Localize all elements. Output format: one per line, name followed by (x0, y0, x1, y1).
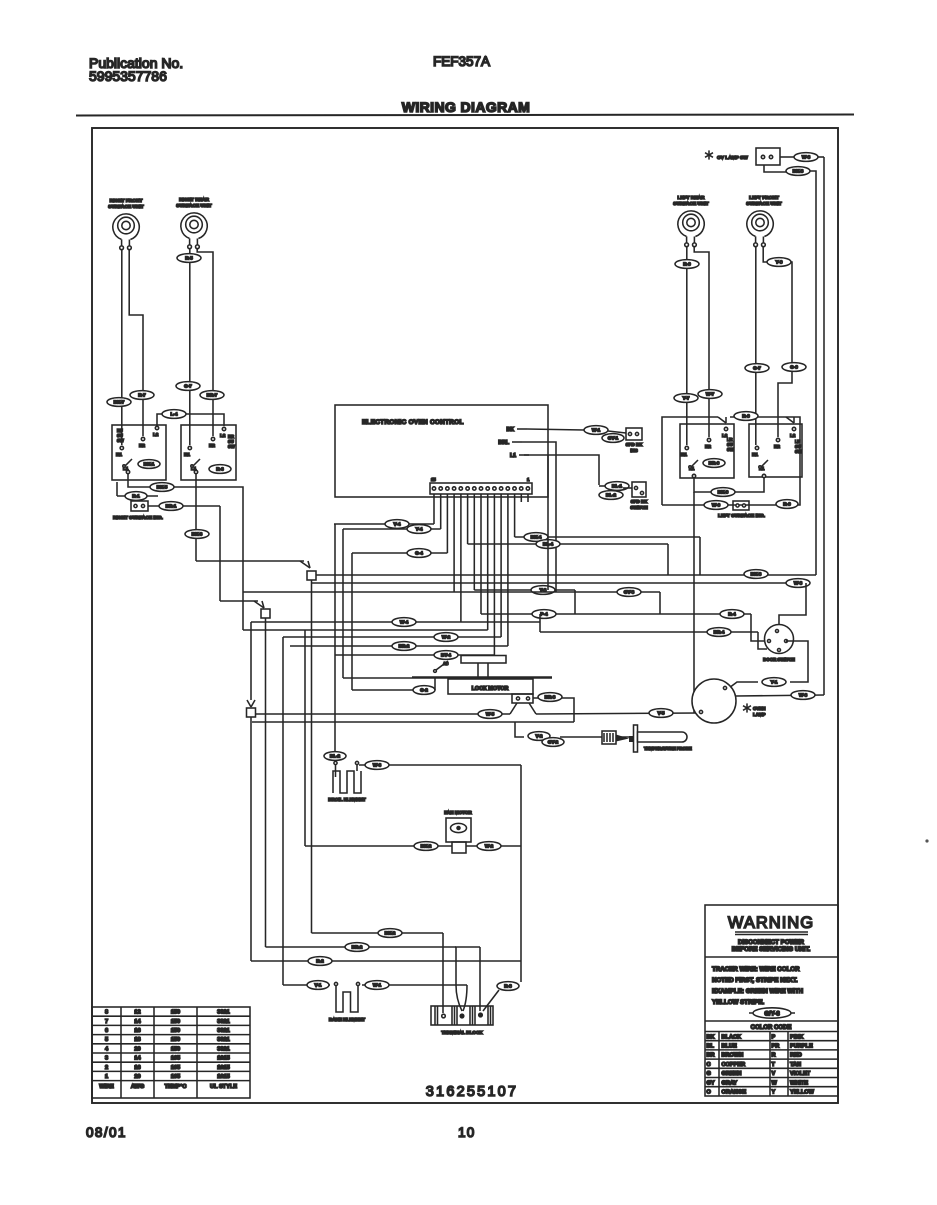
wire row y947 (266, 946, 481, 948)
svg-text:GY-1: GY-1 (608, 436, 619, 441)
svg-text:SW: SW (727, 447, 734, 452)
wire: EOC pin 12 drop (453, 494, 455, 592)
svg-text:G-7: G-7 (184, 384, 192, 389)
left front surface switch box LF SU SW (749, 424, 802, 478)
label BK-8 (786, 167, 810, 176)
svg-text:R-6: R-6 (683, 262, 691, 267)
svg-text:R-6: R-6 (783, 502, 791, 507)
svg-text:W-8: W-8 (794, 581, 803, 586)
wire: EOC pin 13 drop (446, 494, 448, 553)
svg-text:ELECTRONIC OVEN CONTROL: ELECTRONIC OVEN CONTROL (362, 419, 464, 426)
wires curving into terminal block center (456, 947, 462, 1011)
temperature probe body (634, 725, 638, 752)
svg-text:BL-2: BL-2 (330, 754, 341, 759)
label W-5 (478, 710, 502, 719)
wire: indicator to column (148, 505, 220, 507)
wire: LR unit right terminal down (694, 246, 709, 437)
label BL-2 (599, 491, 623, 500)
label W-8 row (786, 579, 810, 588)
label R-5 (177, 254, 201, 263)
wire: RF unit right terminal down (129, 249, 143, 436)
svg-text:BK-4: BK-4 (531, 535, 542, 540)
wire: right side vertical W (823, 157, 825, 695)
wire: EOC pin 14 drop (440, 494, 442, 529)
left rear surface unit coil (673, 195, 709, 247)
label BK-2 fan (414, 842, 438, 851)
wire (818, 156, 824, 158)
label V-4 (385, 520, 409, 529)
svg-text:V: V (772, 1071, 776, 1077)
wire (729, 682, 758, 688)
junction square 3 (247, 708, 256, 717)
svg-text:SW: SW (117, 438, 124, 443)
svg-text:R-8: R-8 (504, 984, 512, 989)
svg-text:TEMP°C: TEMP°C (165, 1084, 187, 1090)
svg-text:BL: BL (707, 1044, 715, 1050)
svg-text:SURFACE UNIT: SURFACE UNIT (108, 204, 144, 210)
label W-7 (698, 390, 722, 399)
svg-text:1015: 1015 (217, 1074, 229, 1080)
wire: down to terminal block left (442, 933, 444, 1013)
label G-4 (407, 549, 431, 558)
wire row y614 (481, 613, 751, 615)
wire row y537 (515, 536, 700, 538)
diagram border frame (92, 128, 838, 1103)
wire: junction3 down (250, 717, 252, 961)
svg-text:105: 105 (171, 1065, 180, 1071)
wire L1 to spd bk switch (524, 455, 599, 485)
wire: fan right (466, 845, 521, 847)
wire row y646 (290, 645, 508, 647)
wire row y714 left (256, 713, 511, 715)
wire (574, 590, 576, 614)
svg-text:SW: SW (228, 444, 235, 449)
label on BK wire (584, 426, 608, 435)
svg-text:105: 105 (171, 1056, 180, 1062)
svg-text:Y-6: Y-6 (776, 260, 783, 265)
svg-text:DOOR SWITCH: DOOR SWITCH (763, 657, 795, 662)
svg-text:5: 5 (105, 1037, 108, 1043)
label R-6 (675, 260, 699, 269)
svg-text:SURFACE UNIT: SURFACE UNIT (176, 203, 212, 209)
label W-8 lamp (791, 691, 815, 700)
left rear surface switch box LR SU SW (680, 424, 734, 478)
svg-text:BK-7: BK-7 (114, 400, 125, 405)
svg-text:12: 12 (134, 1010, 140, 1016)
svg-text:BK-3: BK-3 (192, 532, 203, 537)
wire: x352 down (351, 553, 353, 690)
wire: EOC pin 9 drop (473, 494, 475, 590)
wire: row622 down to junction 3 (250, 622, 252, 700)
svg-text:BK-2: BK-2 (385, 931, 396, 936)
terminal block (431, 1006, 493, 1035)
svg-text:BLUE: BLUE (722, 1044, 737, 1050)
wire row y933 (312, 932, 444, 934)
svg-text:WIRE: WIRE (99, 1084, 114, 1090)
wire BRL down (522, 442, 556, 592)
svg-text:NOTED FIRST, STRIPE NEXT.: NOTED FIRST, STRIPE NEXT. (712, 977, 798, 984)
wire: down to terminal block right (479, 947, 481, 1011)
svg-text:BRL: BRL (498, 440, 509, 446)
label W-3 (365, 761, 389, 770)
wire row y524 (334, 523, 434, 525)
svg-text:W-1: W-1 (592, 428, 601, 433)
spark switch box SPD BK SWITCH (630, 482, 648, 510)
svg-text:1015: 1015 (217, 1056, 229, 1062)
svg-text:BL-1: BL-1 (612, 484, 623, 489)
label W-6 (704, 501, 728, 510)
label in LR box (703, 459, 725, 468)
svg-text:16: 16 (134, 1065, 140, 1071)
wire row y583 (312, 582, 807, 584)
label (602, 434, 624, 443)
label R-6b (776, 500, 798, 509)
svg-text:RIGHT REAR: RIGHT REAR (179, 197, 209, 203)
wire: EOC pin 3 drop (514, 494, 516, 537)
svg-text:G: G (707, 1071, 711, 1077)
svg-text:BROIL ELEMENT: BROIL ELEMENT (328, 797, 366, 802)
svg-text:COPPER: COPPER (722, 1062, 746, 1068)
svg-text:3: 3 (105, 1056, 108, 1062)
label W-1 bake (365, 981, 389, 990)
svg-text:W-3: W-3 (373, 763, 382, 768)
wire BK out (527, 429, 584, 430)
svg-text:BR-2: BR-2 (399, 644, 410, 649)
door switch (763, 625, 795, 663)
svg-text:BR-2: BR-2 (352, 945, 363, 950)
label W-2 fan (477, 842, 501, 851)
svg-text:L2: L2 (153, 432, 159, 437)
svg-text:BK-8: BK-8 (793, 169, 804, 174)
wire: column from RR L1 to junction square 1 (196, 560, 304, 562)
wire row y544 (468, 543, 668, 545)
wire row y655 (335, 654, 494, 656)
svg-text:UL STYLE: UL STYLE (210, 1084, 237, 1090)
svg-text:BK-6: BK-6 (718, 490, 729, 495)
svg-text:3321: 3321 (217, 1019, 229, 1025)
wire (117, 495, 158, 497)
svg-text:RIGHT SURFACE INS.: RIGHT SURFACE INS. (113, 515, 163, 521)
wire: EOC pin 2 drop (520, 494, 522, 502)
svg-text:H2: H2 (705, 444, 711, 449)
svg-text:08/01: 08/01 (86, 1125, 127, 1140)
label Y-7 (674, 394, 698, 403)
svg-text:SPD BK: SPD BK (626, 442, 643, 447)
svg-text:105: 105 (171, 1074, 180, 1080)
svg-text:H1: H1 (681, 452, 687, 457)
wire stub (116, 482, 118, 496)
svg-text:BR-7: BR-7 (207, 393, 218, 398)
label L-4 (162, 410, 186, 419)
svg-text:BK-5: BK-5 (157, 485, 168, 490)
wire: EOC pin 10 drop (467, 494, 469, 544)
svg-text:V-1: V-1 (315, 983, 322, 988)
svg-text:Y-7: Y-7 (683, 396, 690, 401)
svg-text:WARNING: WARNING (728, 914, 814, 932)
wire: lamp to right vertical (736, 695, 824, 696)
wire: bake right row (362, 984, 467, 986)
wire slant from lock sub-box (529, 703, 536, 714)
wire slant to lock sub-box (510, 703, 517, 714)
svg-text:3321: 3321 (217, 1037, 229, 1043)
lock cam tee (461, 656, 506, 664)
svg-text:14: 14 (134, 1056, 141, 1062)
svg-text:BAKE ELEMENT: BAKE ELEMENT (329, 1017, 365, 1022)
label G-6 (782, 363, 806, 372)
label P-4 (532, 610, 556, 619)
svg-text:BR-1: BR-1 (166, 504, 177, 509)
svg-text:3321: 3321 (217, 1010, 229, 1016)
wire: junction2 down (265, 618, 267, 947)
title underline rule (76, 115, 854, 116)
svg-text:SWITCH: SWITCH (630, 505, 647, 510)
label G-2 (413, 686, 435, 695)
svg-text:R-5: R-5 (185, 256, 193, 261)
svg-text:W-5: W-5 (486, 712, 495, 717)
svg-text:C: C (707, 1062, 711, 1068)
label in RF box (138, 460, 160, 469)
svg-text:V-2: V-2 (536, 734, 543, 739)
svg-text:BR-8: BR-8 (545, 695, 556, 700)
label BK-3 (185, 530, 209, 539)
svg-text:YELLOW STRIPE.: YELLOW STRIPE. (712, 999, 765, 1006)
wire: LR unit left terminal down (686, 246, 688, 445)
wire: down to funnel junction 2 (219, 506, 221, 601)
svg-text:Y-1: Y-1 (771, 680, 778, 685)
wire (608, 431, 626, 433)
svg-text:150: 150 (171, 1046, 180, 1052)
wire row y553 (352, 552, 447, 554)
svg-text:RED: RED (790, 1053, 802, 1059)
label R-2 row (308, 957, 332, 966)
svg-text:H2: H2 (209, 443, 215, 448)
svg-text:Y-4: Y-4 (416, 527, 423, 532)
svg-text:3321: 3321 (217, 1028, 229, 1034)
svg-text:L2: L2 (790, 433, 796, 438)
EOC terminal strip (430, 483, 532, 494)
svg-text:BK: BK (507, 427, 515, 433)
svg-text:L-4: L-4 (171, 412, 178, 417)
svg-text:H2: H2 (139, 443, 145, 448)
svg-text:FAN MOTOR: FAN MOTOR (444, 810, 472, 815)
svg-text:Y: Y (772, 1090, 776, 1096)
label Y-1 (762, 678, 786, 687)
wire to probe (515, 722, 524, 737)
wire (539, 614, 541, 632)
svg-text:316255107: 316255107 (426, 1084, 518, 1100)
svg-text:1: 1 (105, 1074, 108, 1080)
label BR-4 (707, 628, 731, 637)
wire: x343 down (342, 529, 344, 678)
label R-4 (720, 610, 744, 619)
wire row y637 (283, 636, 501, 638)
label V-5 (649, 709, 673, 718)
svg-text:LOCK MOTOR: LOCK MOTOR (472, 686, 509, 692)
svg-text:BK-8: BK-8 (751, 572, 762, 577)
svg-text:WIRING DIAGRAM: WIRING DIAGRAM (402, 99, 530, 115)
svg-text:20: 20 (134, 1046, 140, 1052)
warning box (705, 905, 838, 1096)
svg-text:GY: GY (707, 1080, 715, 1086)
svg-text:W-2: W-2 (485, 844, 494, 849)
svg-text:8: 8 (105, 1010, 108, 1016)
svg-text:FEF357A: FEF357A (433, 54, 490, 69)
label in RR box (209, 465, 231, 474)
svg-text:H1: H1 (752, 452, 758, 457)
right rear surface switch box RR SU SW (181, 425, 236, 480)
wire (434, 677, 436, 690)
svg-text:G-6: G-6 (790, 365, 798, 370)
left surface indicator box (733, 501, 749, 510)
svg-text:BK-1: BK-1 (144, 462, 155, 467)
svg-text:2: 2 (105, 1065, 108, 1071)
svg-text:R-3: R-3 (216, 467, 224, 472)
svg-text:SPD BK: SPD BK (631, 499, 648, 504)
svg-text:10: 10 (458, 1125, 475, 1140)
label BK-4 (524, 533, 548, 542)
wire row y714 right to lamp (536, 713, 699, 714)
svg-text:PR: PR (772, 1044, 780, 1050)
wire to door switch (751, 614, 766, 641)
svg-text:H1: H1 (116, 452, 122, 457)
label W-4 (392, 618, 416, 627)
svg-text:PURPLE: PURPLE (790, 1044, 813, 1050)
svg-text:G-2: G-2 (420, 688, 428, 693)
svg-text:15: 15 (431, 477, 436, 482)
svg-text:L1: L1 (510, 453, 516, 459)
svg-text:LEFT FRONT: LEFT FRONT (749, 195, 779, 201)
svg-text:150: 150 (171, 1037, 180, 1043)
svg-text:150: 150 (171, 1010, 180, 1016)
svg-text:TERMINAL BLOCK: TERMINAL BLOCK (441, 1030, 483, 1035)
label BR-2 row (345, 943, 369, 952)
svg-text:VIOLET: VIOLET (790, 1071, 811, 1077)
wire: EOC pin 5 drop (500, 494, 502, 637)
oven lamp switch OV LAMP SW (705, 148, 780, 165)
wire: broil right to fan loop (359, 764, 521, 766)
svg-text:LAMP: LAMP (753, 712, 766, 717)
label V-2 (528, 732, 550, 741)
label BT-4 (434, 651, 458, 660)
svg-text:R-2: R-2 (316, 959, 324, 964)
spark ignitor box SPD BK INS (626, 428, 643, 453)
wire: EOC pin 15 drop (433, 494, 435, 524)
broil element (328, 761, 366, 802)
wire: RF unit left terminal down (121, 249, 123, 445)
wire: L2-L2 link (157, 414, 224, 426)
wire (599, 485, 605, 487)
svg-text:WHITE: WHITE (790, 1080, 808, 1086)
wire: RF L1 down to junction column (128, 474, 243, 630)
temperature probe connector (602, 731, 616, 744)
svg-text:1015: 1015 (217, 1065, 229, 1071)
svg-text:BK-2: BK-2 (421, 844, 432, 849)
wire: EOC pin 6 drop (493, 494, 495, 655)
svg-text:150: 150 (171, 1028, 180, 1034)
svg-text:L2: L2 (220, 433, 226, 438)
wire: EOC pin 7 drop (487, 494, 489, 630)
junction square 1 (307, 571, 316, 580)
wire to door switch low (758, 632, 767, 649)
svg-text:OVEN: OVEN (753, 706, 765, 711)
svg-text:W-8: W-8 (799, 693, 808, 698)
label BR-8 (538, 693, 562, 702)
wire row y961 (251, 960, 521, 962)
wire: lamp switch bottom (764, 165, 786, 172)
wire row y590 (474, 589, 575, 591)
svg-text:BEFORE SERVICING UNIT.: BEFORE SERVICING UNIT. (732, 946, 811, 953)
wire to funnel 2 (220, 600, 258, 602)
scan speck artifact (925, 839, 928, 842)
svg-text:W-1: W-1 (373, 983, 382, 988)
wire row y622 (251, 621, 540, 623)
label G-7 (176, 382, 200, 391)
label BK-8 row (744, 570, 768, 579)
wire: right loop vertical x521 (520, 765, 522, 982)
label Y-6 (767, 258, 791, 267)
svg-text:BR: BR (707, 1053, 715, 1059)
svg-text:SURFACE UNIT: SURFACE UNIT (673, 201, 709, 207)
label G-7b (745, 364, 769, 373)
wire to door switch top (779, 583, 806, 628)
lock switch contact (352, 689, 430, 691)
wire: column x283 down to bake row (282, 637, 284, 985)
wire: RR unit left terminal down (189, 249, 191, 445)
lock motor cam bar (412, 676, 552, 678)
svg-text:R-4: R-4 (728, 612, 736, 617)
svg-text:G-7: G-7 (753, 366, 761, 371)
wire row y722 (252, 721, 574, 723)
svg-text:TEMPERATURE PROBE: TEMPERATURE PROBE (644, 746, 692, 751)
svg-text:V-5: V-5 (658, 711, 665, 716)
svg-text:LEFT SURFACE INS.: LEFT SURFACE INS. (718, 513, 765, 519)
label BR-2 (392, 642, 416, 651)
svg-text:W: W (772, 1080, 778, 1086)
wire: junction1 down (311, 580, 313, 933)
wire: loop bottom (662, 417, 800, 505)
right rear surface unit coil (176, 197, 212, 249)
L1 to L1 link wire (694, 478, 764, 492)
label R-6 top (734, 412, 758, 421)
svg-text:BL-2: BL-2 (606, 493, 617, 498)
svg-text:G-4: G-4 (415, 551, 423, 556)
svg-text:7: 7 (105, 1019, 108, 1025)
label GY-8 (617, 588, 641, 597)
svg-text:DISCONNECT POWER: DISCONNECT POWER (738, 939, 805, 946)
svg-text:BR-6: BR-6 (709, 461, 720, 466)
wire: RR L1 down (195, 474, 197, 561)
svg-text:O: O (707, 1090, 712, 1096)
wire row y529 (343, 528, 441, 530)
svg-text:ORANGE: ORANGE (722, 1090, 747, 1096)
wire: LF unit left terminal down (755, 246, 757, 445)
right front surface unit coil (108, 198, 144, 250)
wire: door switch to lamp (786, 641, 808, 682)
wire: LR L1 down to lamp row (693, 492, 695, 713)
left front surface unit coil (746, 195, 782, 247)
right surface indicator box (131, 501, 148, 511)
wire: fan left (305, 845, 452, 847)
svg-text:3321: 3321 (217, 1046, 229, 1052)
svg-text:GRAY: GRAY (722, 1080, 738, 1086)
wire to lock cam (343, 677, 412, 679)
svg-text:R-7: R-7 (138, 393, 146, 398)
wire row y575 to right (316, 574, 816, 576)
wire: lamp switch to W-8 (780, 156, 794, 158)
label BL-2 broil (324, 752, 346, 761)
outer loop around left surface switch boxes (662, 417, 718, 505)
junction square 2 (261, 609, 270, 618)
